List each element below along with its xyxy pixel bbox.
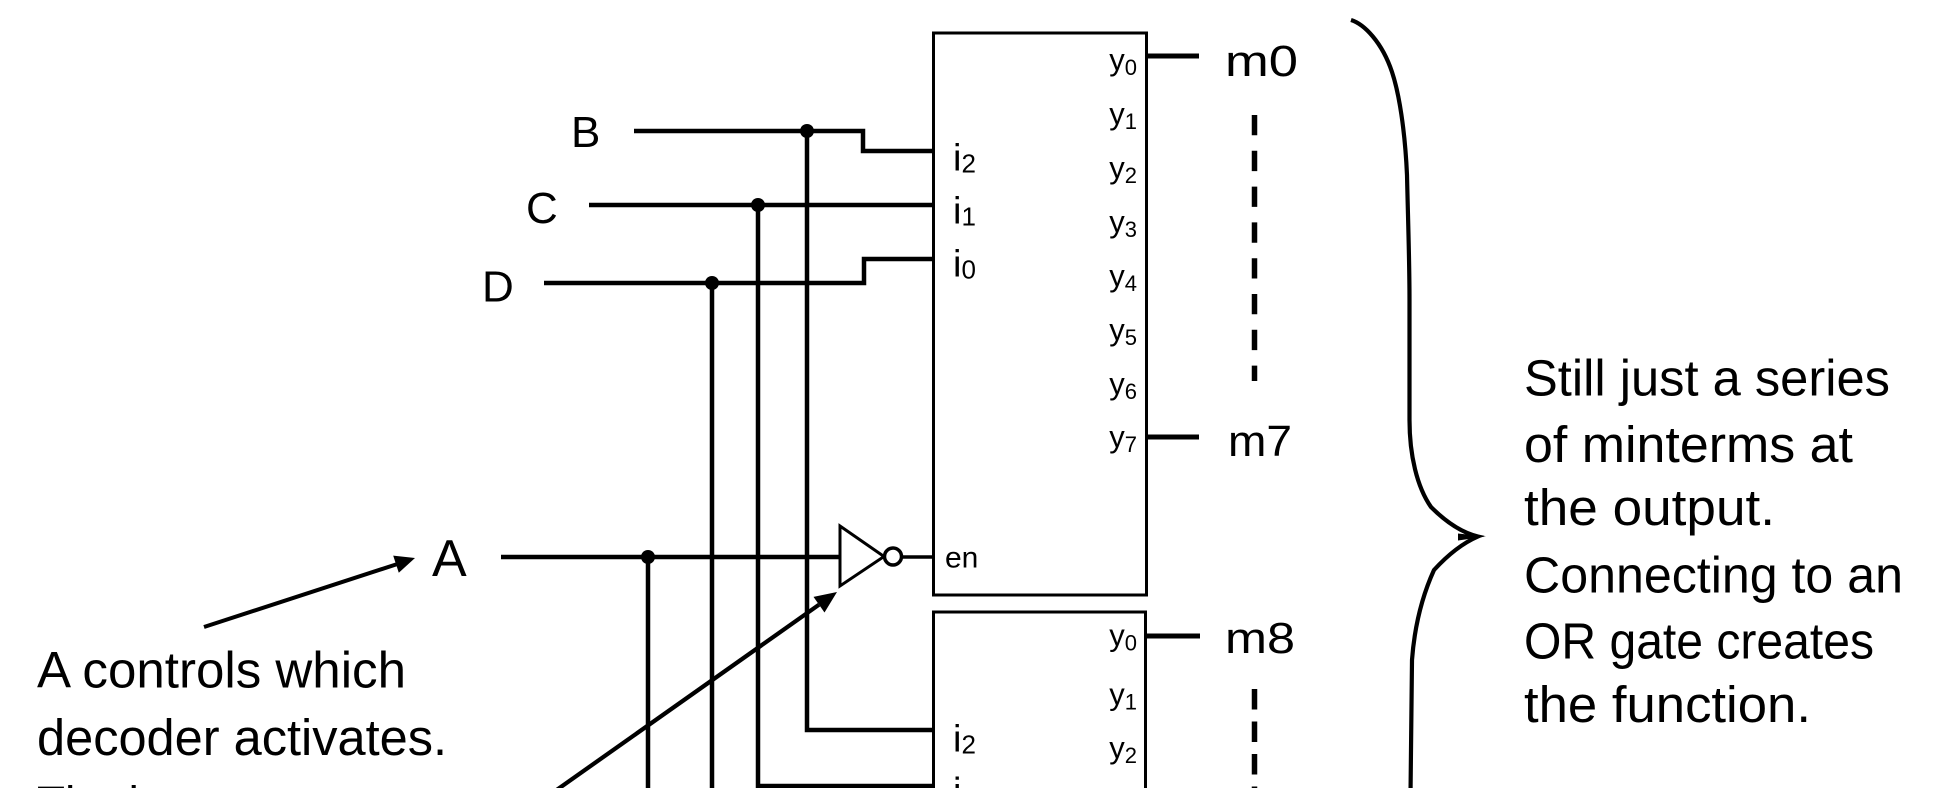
arrow to inverter bbox=[541, 592, 837, 788]
svg-text:en: en bbox=[945, 542, 978, 575]
svg-text:D: D bbox=[482, 263, 514, 312]
svg-text:of minterms at: of minterms at bbox=[1524, 416, 1853, 473]
dashed line outputs y1-y6 bbox=[1252, 115, 1258, 381]
inverter U3 (NOT gate on A) bbox=[840, 526, 902, 586]
wire B vertical to U2 bbox=[807, 131, 933, 730]
wire m8 stub bbox=[1147, 634, 1200, 639]
decoder U2 (3-to-8 decoder, bottom, clipped) bbox=[934, 612, 1146, 788]
dashed line outputs U2 bbox=[1252, 689, 1258, 788]
svg-text:m8: m8 bbox=[1225, 614, 1295, 663]
svg-text:m0: m0 bbox=[1225, 37, 1298, 86]
wire A horizontal bbox=[501, 555, 840, 560]
svg-text:Still just a series: Still just a series bbox=[1524, 350, 1890, 407]
wire D vertical to U2 bbox=[710, 283, 715, 788]
svg-text:Connecting to an: Connecting to an bbox=[1524, 547, 1903, 604]
wire m0 stub bbox=[1148, 54, 1199, 59]
svg-text:B: B bbox=[571, 108, 600, 157]
node C junction bbox=[751, 198, 765, 212]
node D junction bbox=[705, 276, 719, 290]
node A junction bbox=[641, 550, 655, 564]
svg-text:m7: m7 bbox=[1228, 417, 1292, 466]
wire A vertical to U2 bbox=[646, 557, 651, 788]
svg-text:C: C bbox=[526, 184, 558, 233]
wire inverter output to U1 en bbox=[902, 555, 933, 559]
wire m7 stub bbox=[1148, 435, 1199, 440]
svg-text:The inverter ensures: The inverter ensures bbox=[37, 776, 457, 788]
arrow to label A bbox=[204, 556, 415, 627]
svg-text:the function.: the function. bbox=[1524, 676, 1811, 733]
wire B horizontal bbox=[634, 131, 933, 151]
decoder U1 (3-to-8 decoder, top) bbox=[934, 33, 1147, 595]
svg-text:the output.: the output. bbox=[1524, 479, 1775, 536]
wire C vertical to U2 bbox=[758, 205, 933, 786]
svg-text:A controls which: A controls which bbox=[37, 642, 406, 699]
svg-text:A: A bbox=[432, 530, 467, 588]
svg-text:OR gate creates: OR gate creates bbox=[1524, 613, 1874, 670]
brace bbox=[1351, 20, 1478, 788]
wire C horizontal bbox=[589, 203, 933, 208]
wire D horizontal bbox=[544, 259, 933, 283]
node B junction bbox=[800, 124, 814, 138]
svg-text:decoder activates.: decoder activates. bbox=[37, 709, 447, 766]
